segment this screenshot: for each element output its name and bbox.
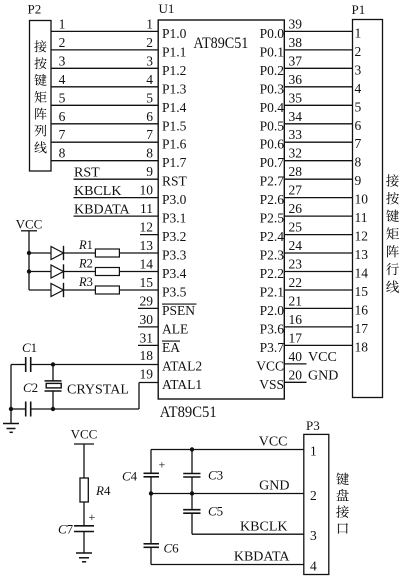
svg-text:AT89C51: AT89C51 [193,35,248,52]
svg-text:C4: C4 [122,469,138,484]
svg-text:6: 6 [355,118,362,133]
svg-text:11: 11 [355,210,368,225]
svg-text:C5: C5 [208,504,223,519]
svg-text:1: 1 [146,16,153,31]
svg-text:P1.7: P1.7 [162,155,187,170]
svg-text:10: 10 [355,192,369,207]
svg-text:18: 18 [140,348,154,363]
wire U1 pin 34 to P1 pin 6 [284,109,352,124]
svg-text:KBCLK: KBCLK [74,184,121,199]
U1 right pin labels [256,26,284,392]
svg-text:7: 7 [59,127,66,142]
svg-text:4: 4 [310,559,317,574]
wire U1 pin 35 to P1 pin 5 [284,90,352,105]
svg-text:P1.4: P1.4 [162,100,187,115]
svg-text:21: 21 [289,293,303,308]
svg-text:P3.0: P3.0 [162,192,187,207]
svg-text:PSEN: PSEN [162,303,195,318]
svg-text:+: + [89,510,96,524]
svg-text:ALE: ALE [162,321,188,336]
wire left leg [10,365,12,410]
svg-text:VCC: VCC [259,435,288,450]
svg-text:18: 18 [355,339,369,354]
svg-text:19: 19 [140,367,154,382]
wire U1 pin 23 to P1 pin 14 [284,257,352,272]
svg-text:14: 14 [355,266,369,281]
wire U1 pin 27 to P1 pin 10 [284,183,352,198]
svg-text:16: 16 [289,312,303,327]
wire U1 pin 16 to P1 pin 17 [284,312,352,327]
svg-text:R3: R3 [78,275,93,289]
svg-text:P2.3: P2.3 [260,248,285,263]
crystal Y1 [45,365,129,410]
svg-text:C7: C7 [58,522,74,537]
svg-text:P0.1: P0.1 [260,44,284,59]
pin stub 29 [138,293,158,308]
svg-text:P0.2: P0.2 [260,63,284,78]
svg-text:17: 17 [355,321,369,336]
svg-text:P2.2: P2.2 [260,266,284,281]
wire KBCLK net to P3 pin 3 [192,520,304,535]
wire U1 pin 22 to P1 pin 15 [284,275,352,290]
svg-text:P3: P3 [306,418,320,433]
svg-text:1: 1 [59,16,66,31]
svg-text:29: 29 [140,293,154,308]
wire U1 pin 28 to P1 pin 9 [284,164,352,179]
diode D1 [29,246,64,260]
svg-text:1: 1 [355,25,362,40]
svg-text:27: 27 [289,183,303,198]
svg-text:P2.6: P2.6 [260,192,285,207]
svg-text:4: 4 [146,72,153,87]
svg-text:P3.3: P3.3 [162,248,187,263]
diode D2 [29,264,64,278]
svg-text:RST: RST [162,174,188,189]
svg-text:12: 12 [355,229,369,244]
svg-text:AT89C51: AT89C51 [160,404,217,421]
svg-text:P1.3: P1.3 [162,81,187,96]
junction node crystal top [51,362,55,366]
svg-text:VSS: VSS [259,377,284,392]
svg-text:26: 26 [289,201,303,216]
power VCC (diode bank) [16,217,43,232]
svg-text:KBDATA: KBDATA [74,203,131,218]
ground (C7) [76,553,92,562]
svg-text:36: 36 [289,72,303,87]
note (P3): keyboard interface [336,473,349,534]
svg-text:6: 6 [59,109,66,124]
wire U1 pin 24 to P1 pin 13 [284,238,352,253]
svg-text:33: 33 [289,127,303,142]
svg-text:P3.5: P3.5 [162,285,187,300]
svg-text:10: 10 [140,183,154,198]
svg-text:32: 32 [289,146,303,161]
pin stub 40 VCC [284,349,336,365]
svg-text:GND: GND [259,479,289,494]
svg-text:3: 3 [59,53,66,68]
svg-text:VCC: VCC [256,358,284,373]
svg-text:39: 39 [289,16,303,31]
svg-text:28: 28 [289,164,303,179]
svg-text:35: 35 [289,90,303,105]
wire P2 pin 2 to U1 pin 2 [51,35,158,50]
svg-text:P0.6: P0.6 [260,137,285,152]
svg-text:C6: C6 [164,541,180,556]
capacitor C4 [122,450,166,494]
svg-text:P3.6: P3.6 [260,321,285,336]
svg-text:P3.1: P3.1 [162,211,186,226]
capacitor C2 [11,380,139,417]
svg-text:C2: C2 [23,380,38,395]
wire XTAL1 pin 19 [139,367,158,410]
svg-text:38: 38 [289,35,303,50]
svg-text:8: 8 [146,146,153,161]
svg-text:20: 20 [289,367,303,382]
wire P2 pin 3 to U1 pin 3 [51,53,158,68]
svg-text:P2.4: P2.4 [260,229,285,244]
svg-text:P1.0: P1.0 [162,26,187,41]
svg-text:5: 5 [355,99,362,114]
pin stub 20 GND [284,367,338,383]
wire U1 pin 38 to P1 pin 2 [284,35,352,50]
svg-text:31: 31 [140,330,154,345]
pin stub 30 [138,312,158,327]
capacitor C7 [58,510,96,537]
U1 left pin labels [162,26,202,392]
wire U1 pin 21 to P1 pin 16 [284,293,352,308]
svg-text:15: 15 [140,275,154,290]
svg-text:23: 23 [289,257,303,272]
svg-text:R1: R1 [78,238,93,252]
svg-text:P2: P2 [28,2,42,17]
capacitor C3 [183,450,223,494]
svg-text:EA: EA [162,340,180,355]
svg-text:P0.0: P0.0 [260,26,285,41]
junction node diode D1 [27,251,31,255]
wire VCC to R4 [83,444,85,478]
svg-text:P3.2: P3.2 [162,229,186,244]
svg-text:VCC: VCC [308,350,337,365]
svg-text:40: 40 [289,349,303,364]
svg-text:34: 34 [289,109,303,124]
svg-text:15: 15 [355,284,369,299]
wire U1 pin 33 to P1 pin 7 [284,127,352,142]
wire U1 pin 37 to P1 pin 3 [284,53,352,68]
resistor R2 [64,257,159,276]
svg-text:30: 30 [140,312,154,327]
wire U1 pin 17 to P1 pin 18 [284,330,352,345]
svg-text:4: 4 [59,72,66,87]
wire P2 pin 4 to U1 pin 4 [51,72,158,87]
svg-text:16: 16 [355,302,369,317]
svg-text:14: 14 [140,257,154,272]
wire P2 pin 7 to U1 pin 7 [51,127,158,142]
svg-text:3: 3 [355,62,362,77]
junction node crystal bottom [51,407,55,411]
svg-text:KBDATA: KBDATA [234,550,291,565]
svg-text:P0.7: P0.7 [260,155,285,170]
note (right): key matrix row lines [386,174,399,293]
svg-text:P3.7: P3.7 [260,340,285,355]
svg-text:2: 2 [146,35,153,50]
svg-text:17: 17 [289,330,303,345]
resistor R1 [64,238,159,257]
svg-text:KBCLK: KBCLK [240,520,287,535]
pin stub 12 (P3.2) [140,220,159,235]
resistor R3 [64,275,159,294]
wire U1 pin 36 to P1 pin 4 [284,72,352,87]
wire KBCLK (U1 pin 10) [74,183,159,200]
wire RST (U1 pin 9) [74,164,159,181]
wire U1 pin 39 to P1 pin 1 [284,16,352,31]
svg-text:C3: C3 [208,468,223,483]
wire KBDATA (U1 pin 11) [74,201,159,218]
svg-text:7: 7 [146,127,153,142]
svg-text:24: 24 [289,238,303,253]
svg-text:4: 4 [355,81,362,96]
svg-text:2: 2 [59,35,66,50]
resistor R4 [80,478,111,502]
svg-text:5: 5 [59,90,66,105]
wire P2 pin 6 to U1 pin 6 [51,109,158,124]
svg-text:P2.0: P2.0 [260,303,285,318]
junction node C4 bottom [149,491,153,495]
svg-text:13: 13 [140,238,154,253]
wire U1 pin 26 to P1 pin 11 [284,201,352,216]
svg-text:P3.4: P3.4 [162,266,187,281]
svg-text:+: + [159,458,166,472]
svg-text:11: 11 [140,201,153,216]
svg-text:13: 13 [355,247,369,262]
svg-text:R4: R4 [95,483,111,498]
svg-text:P1.5: P1.5 [162,118,187,133]
wire C7 to ground [83,532,85,553]
svg-text:25: 25 [289,220,303,235]
svg-text:P0.5: P0.5 [260,118,285,133]
svg-text:GND: GND [308,368,338,383]
svg-text:P1: P1 [352,2,366,17]
svg-text:P1.6: P1.6 [162,137,187,152]
svg-text:2: 2 [355,44,362,59]
wire R4 to C7 [83,502,85,526]
wire U1 pin 32 to P1 pin 8 [284,146,352,161]
svg-text:9: 9 [355,173,362,188]
svg-text:9: 9 [146,164,153,179]
svg-text:P1.1: P1.1 [162,44,186,59]
svg-text:P0.3: P0.3 [260,81,285,96]
junction node diode D2 [27,269,31,273]
svg-text:8: 8 [59,146,66,161]
svg-text:37: 37 [289,53,303,68]
svg-text:P2.5: P2.5 [260,211,285,226]
wire VCC net to P3 pin 1 [151,435,304,450]
capacitor C1 [11,340,53,372]
connector P1 [352,2,383,398]
svg-text:P2.7: P2.7 [260,174,285,189]
svg-text:P1.2: P1.2 [162,63,186,78]
junction node C5 top [190,491,194,495]
svg-text:P0.4: P0.4 [260,100,285,115]
svg-text:8: 8 [355,155,362,170]
svg-text:VCC: VCC [71,427,98,442]
wire GND net to P3 pin 2 [151,479,304,494]
wire KBDATA net to P3 pin 4 [151,550,304,565]
svg-text:C1: C1 [22,340,37,355]
ground (crystal) [3,409,19,432]
svg-text:CRYSTAL: CRYSTAL [67,383,129,398]
capacitor C5 [183,494,223,535]
diode D3 [29,283,64,297]
svg-text:3: 3 [310,528,317,543]
svg-text:VCC: VCC [16,217,43,232]
power VCC (R4 branch) [71,427,98,445]
svg-text:RST: RST [74,166,100,181]
svg-text:22: 22 [289,275,303,290]
connector P3 [304,418,329,575]
svg-text:12: 12 [140,220,154,235]
svg-text:R2: R2 [78,257,93,271]
junction node ground [9,407,13,411]
svg-text:1: 1 [310,444,317,459]
pin stub 31 [138,330,158,345]
wire U1 pin 25 to P1 pin 12 [284,220,352,235]
svg-text:5: 5 [146,90,153,105]
wire P2 pin 1 to U1 pin 1 [51,16,158,31]
svg-text:ATAL1: ATAL1 [162,377,202,392]
svg-text:7: 7 [355,136,362,151]
wire VCC bus [28,231,30,290]
wire P2 pin 8 to U1 pin 8 [51,146,158,161]
svg-text:3: 3 [146,53,153,68]
svg-text:U1: U1 [159,1,175,16]
IC U1 AT89C51 [158,1,284,421]
junction node C3 top [190,447,194,451]
wire XTAL2 pin 18 [53,348,158,364]
wire P2 pin 5 to U1 pin 5 [51,90,158,105]
capacitor C6 [144,494,180,565]
svg-text:2: 2 [310,488,317,503]
svg-text:ATAL2: ATAL2 [162,358,202,373]
connector P2 [28,2,52,172]
svg-text:6: 6 [146,109,153,124]
svg-text:P2.1: P2.1 [260,285,284,300]
